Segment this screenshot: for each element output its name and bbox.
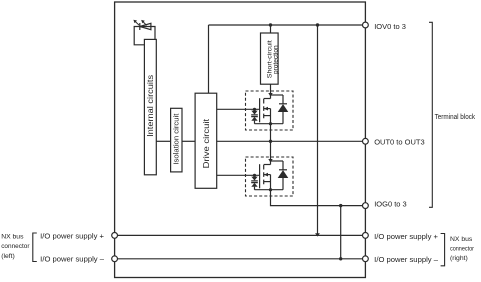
Q1 drain link [264, 98, 271, 100]
svg-text:Terminal block: Terminal block [435, 114, 476, 121]
wire: Q1 source down to OUT line [270, 124, 272, 142]
Q2 source column [270, 175, 272, 190]
wire: IOV rail to short-circuit protection [270, 25, 272, 33]
LED emission arrow 1 [135, 21, 140, 25]
terminal: I/O power supply - (left) [112, 256, 118, 262]
terminal: IOG0 to 3 [363, 203, 369, 209]
wire: short-circuit protection to Q1 drain [270, 84, 272, 98]
Q1 drain entry arrow [268, 93, 272, 97]
bracket: terminal block [429, 22, 432, 207]
Q1 channel bar segments [263, 99, 265, 119]
Q1 bottom rail [255, 123, 284, 125]
svg-text:I/O power supply –: I/O power supply – [374, 255, 439, 264]
svg-text:Internal circuits: Internal circuits [146, 75, 155, 137]
svg-text:OUT0 to OUT3: OUT0 to OUT3 [374, 137, 424, 146]
short-circuit protection block [261, 33, 279, 84]
Q2 body connection with arrow [264, 174, 271, 176]
junction: IOV / right drop [316, 23, 319, 26]
LED emission arrow 2 [142, 21, 146, 25]
Q1 dashed enclosure [246, 91, 294, 130]
Q2 drain entry arrow [268, 159, 272, 163]
internal circuits block [144, 39, 156, 174]
isolation circuit block [171, 108, 182, 172]
wire: I/O power supply + line [115, 234, 366, 236]
wire: I/O power supply - line [115, 258, 366, 260]
Q1 source column [270, 109, 272, 124]
terminal: I/O power supply - (right) [363, 256, 369, 262]
svg-text:connector: connector [450, 246, 475, 253]
wire: OUT0 to OUT3 line [217, 140, 366, 142]
svg-text:NX bus: NX bus [1, 234, 24, 241]
enclosure: unit internal-circuit boundary box [115, 2, 366, 278]
Q1 top rail to body diode [271, 94, 284, 96]
svg-text:IOG0 to 3: IOG0 to 3 [374, 199, 407, 208]
Q1 gate bar [259, 98, 261, 122]
svg-text:I/O power supply +: I/O power supply + [374, 232, 438, 241]
wire: Q2 source to IOG line [271, 190, 366, 206]
MOSFET Q2 (lower output transistor) [246, 157, 294, 196]
wire: IOG drop to I/O power supply - [340, 206, 342, 259]
wire: IOV supply rail (top) [209, 24, 366, 26]
LED indicator loop wire [134, 27, 155, 45]
Q2 channel bar segments [263, 165, 265, 185]
terminal: IOV0 to 3 [363, 22, 369, 28]
Q2 gate bar [259, 164, 261, 188]
wire: gate drive to Q2 [217, 174, 260, 176]
svg-text:(left): (left) [1, 253, 15, 260]
LED D4 cathode bar [139, 23, 141, 30]
LED D4 triangle [140, 23, 151, 29]
junction: Q2 source / bottom rail [269, 188, 272, 191]
svg-text:I/O power supply +: I/O power supply + [40, 231, 104, 240]
junction: Q1 source / bottom rail [269, 122, 272, 125]
Q2 dashed enclosure [246, 157, 294, 196]
svg-text:IOV0 to 3: IOV0 to 3 [374, 22, 406, 31]
wire: IOV rail down to drive circuit top [208, 25, 210, 93]
junction: IOG / drop [339, 204, 342, 207]
wire: OUT line down to Q2 drain [270, 141, 272, 164]
svg-text:Drive circuit: Drive circuit [201, 118, 211, 168]
drive circuit block [195, 93, 217, 188]
bracket: NX bus connector left [33, 233, 37, 262]
wire: isolation circuit to drive circuit [182, 140, 195, 142]
wire: internal circuits to isolation circuit [156, 140, 170, 142]
svg-text:Isolation circuit: Isolation circuit [174, 114, 181, 165]
junction: IOV / short-circuit protection [269, 23, 272, 26]
Q2 source link [264, 181, 271, 183]
svg-text:NX bus: NX bus [450, 236, 473, 243]
svg-text:connector: connector [1, 243, 30, 250]
Q1 body connection with arrow [264, 108, 271, 110]
body diode D2 [282, 161, 284, 190]
wire: IOV rail drop to I/O power supply + [317, 25, 319, 235]
svg-text:protection: protection [272, 45, 279, 74]
Q2 bottom rail [255, 189, 284, 191]
svg-text:(right): (right) [450, 255, 468, 262]
junction: OUT line / MOSFET midpoint [269, 140, 272, 143]
Q2 drain link [264, 164, 271, 166]
terminal: I/O power supply + (right) [363, 233, 369, 239]
Q2 top rail to body diode [271, 160, 284, 162]
body diode D1 [282, 95, 284, 124]
bracket: NX bus connector right [441, 234, 445, 266]
wire: gate drive to Q1 [217, 108, 260, 110]
terminal: I/O power supply + (left) [112, 233, 118, 239]
zener pair ZD2 (gate protection) [253, 174, 256, 177]
terminal: OUT0 to OUT3 [363, 138, 369, 144]
Q1 source link [264, 115, 271, 117]
svg-text:I/O power supply –: I/O power supply – [40, 255, 105, 264]
junction: right drop to power + line [315, 233, 320, 236]
zener pair ZD1 (gate protection) [253, 108, 256, 111]
junction: drop / power - line [339, 257, 342, 260]
MOSFET Q1 (upper output transistor) [246, 91, 294, 130]
